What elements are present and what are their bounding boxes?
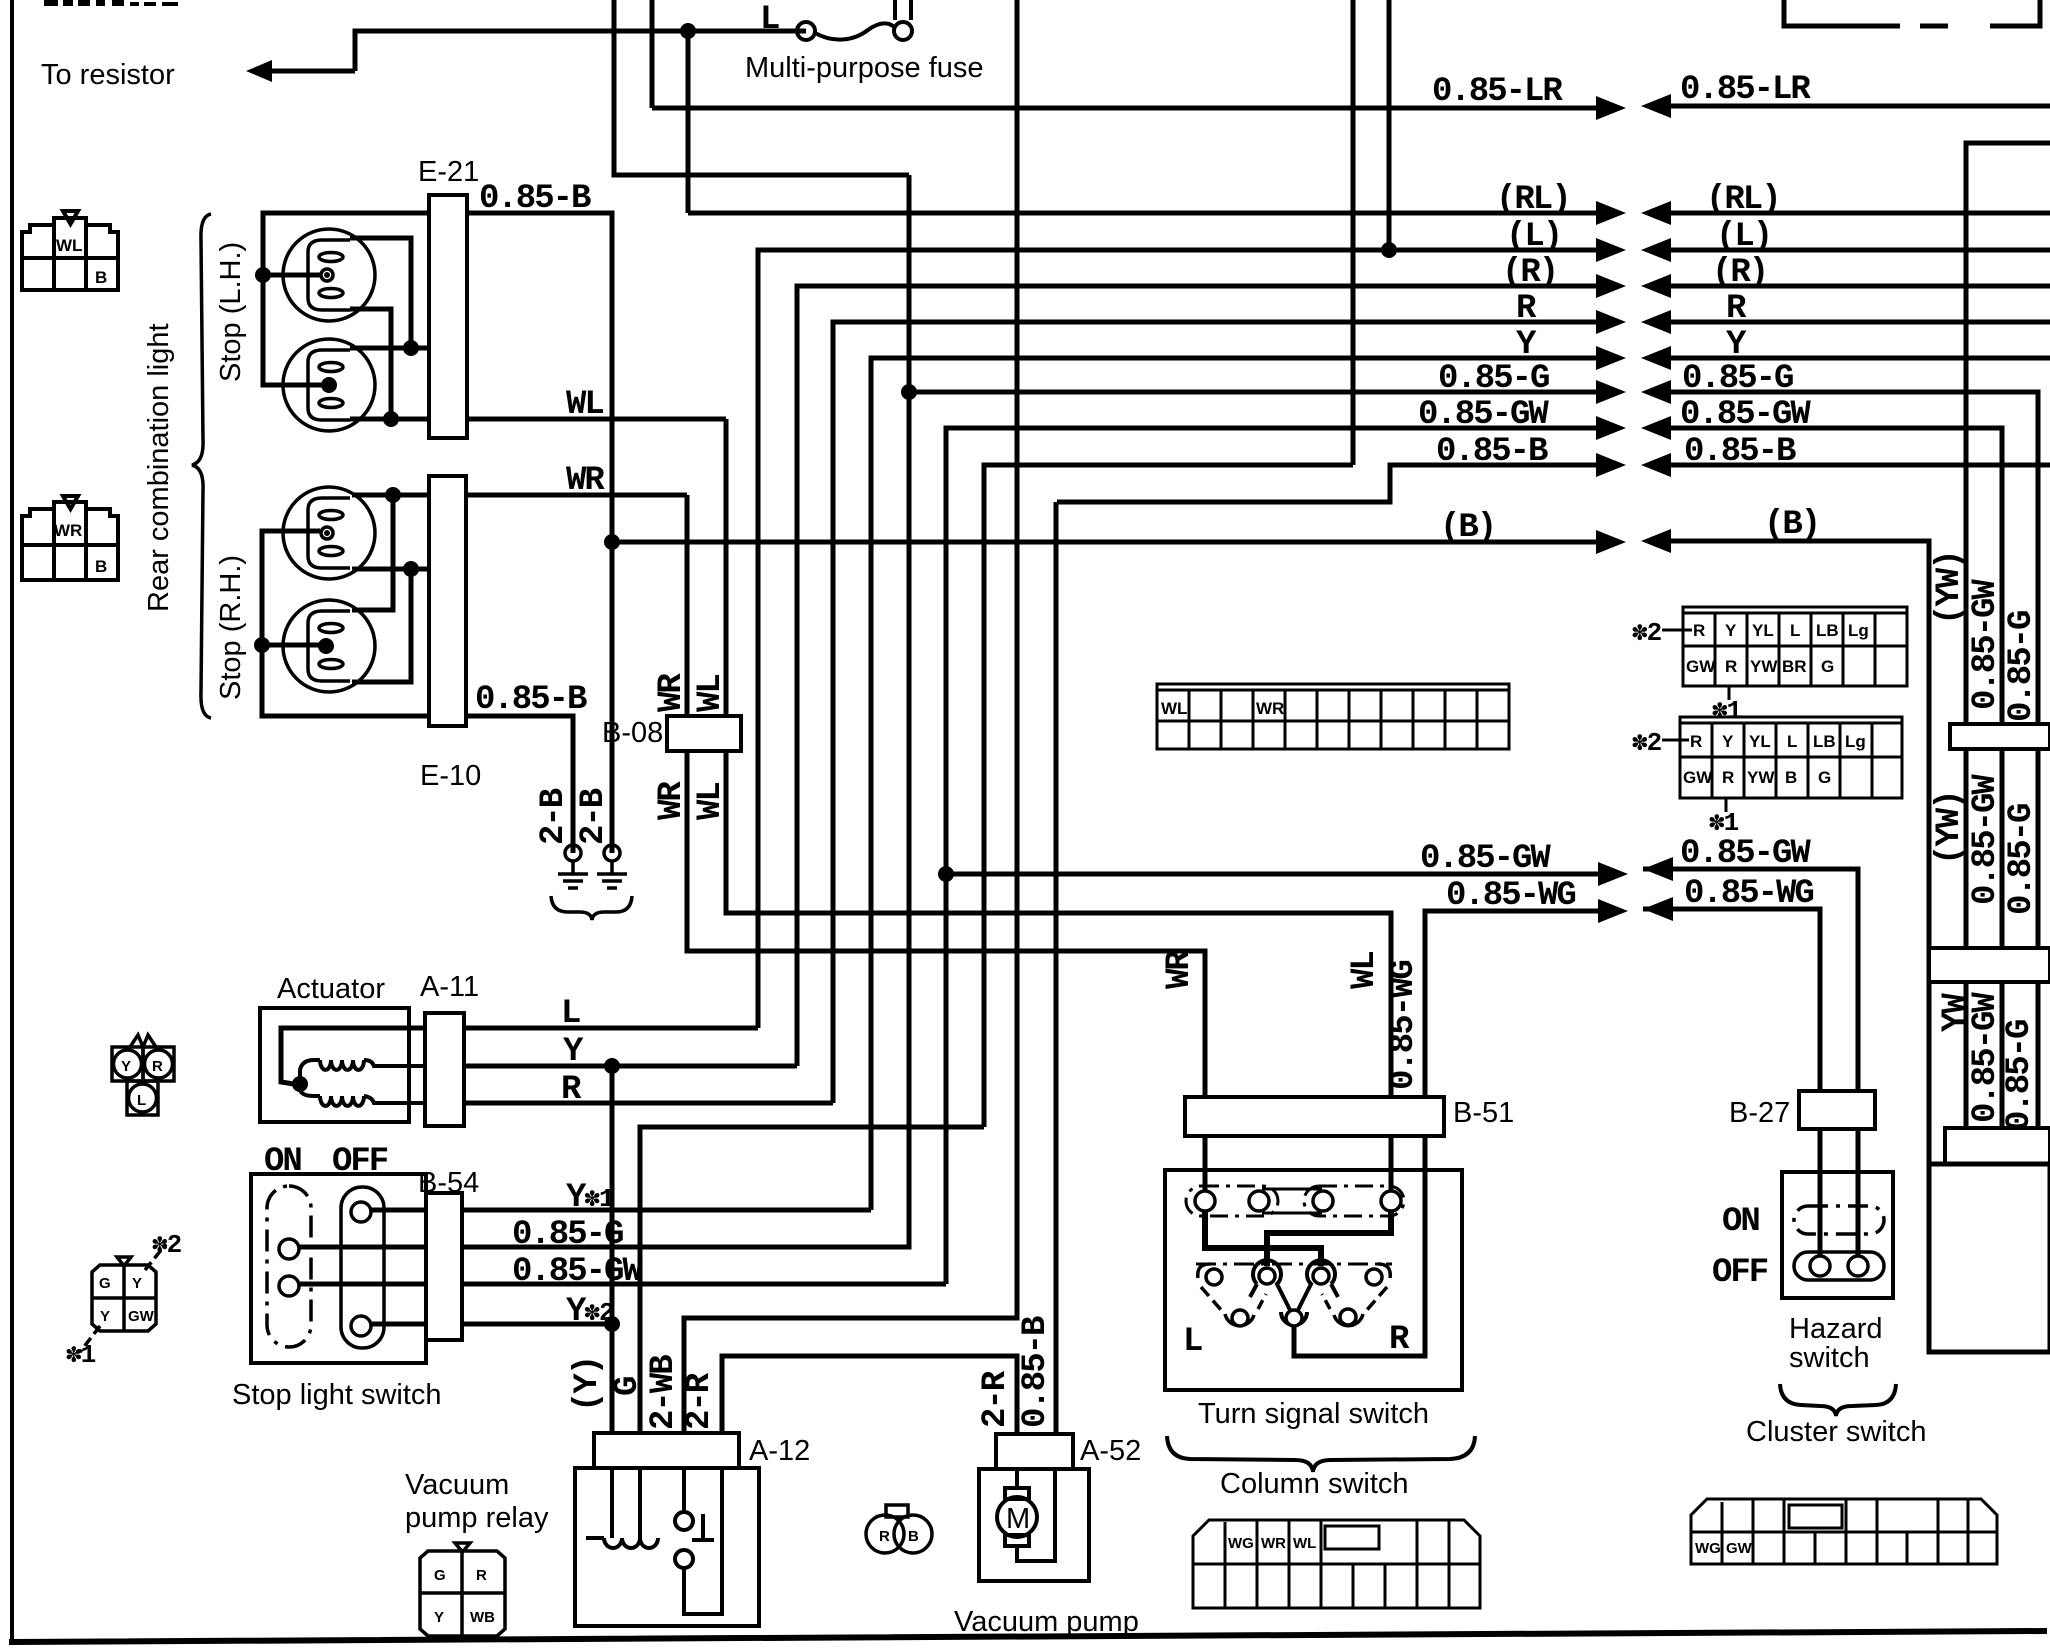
wire RH bulb tops / WR pin [352,493,687,498]
bulb RH stop 2 [283,600,375,692]
svg-text:Y: Y [121,1058,131,1075]
svg-text:0.85-G: 0.85-G [1682,360,1793,398]
junction node fuse feed [680,23,696,39]
svg-text:ON: ON [1722,1203,1759,1241]
svg-text:L: L [1790,621,1800,640]
main vertical feed wires from top [462,0,1389,1433]
svg-text:WR: WR [54,521,82,540]
wire 0.85-G right [1649,392,2038,1128]
svg-text:(L): (L) [1506,218,1561,256]
svg-text:(B): (B) [1764,506,1819,544]
svg-text:Multi-purpose fuse: Multi-purpose fuse [745,52,984,84]
svg-text:(B): (B) [1440,509,1495,547]
svg-text:A-12: A-12 [749,1435,810,1467]
wire 0.85-G left [909,390,1618,395]
node (B) junction [604,534,620,550]
svg-text:R: R [1389,1321,1410,1359]
hazard switch box [1782,1172,1893,1298]
bus labels left column [1418,73,1575,915]
svg-text:GW: GW [1686,657,1716,676]
connector icon WR/B [22,496,118,580]
lower contact row dash-dot line [1196,1263,1392,1266]
svg-text:OFF: OFF [1712,1254,1768,1292]
lower contact V center teardrops [1250,1260,1338,1325]
wire top feed x614 upper segment [614,0,909,175]
node LH WL [383,411,399,427]
connector bar right C [1945,1128,2050,1164]
svg-text:0.85-GW: 0.85-GW [1967,992,2005,1123]
wire Y left [871,358,1618,1210]
page left border [10,0,14,1641]
svg-text:R: R [152,1058,163,1075]
svg-text:Y: Y [100,1308,110,1325]
connector bar right A [1950,724,2050,749]
wire (RL) left [688,211,1618,216]
relay box [575,1468,759,1626]
svg-text:GW: GW [1726,1540,1753,1557]
connector icon WL/B [22,211,118,290]
wire R right [1649,320,2050,325]
wire 0.85-GW right [1649,428,2002,1128]
svg-text:0.85-G: 0.85-G [2003,804,2041,915]
bus labels right column [1680,71,1819,913]
svg-text:0.85-GW: 0.85-GW [1967,579,2005,710]
wire LH bulb tops to pin [350,238,429,348]
svg-text:0.85-B: 0.85-B [475,681,587,719]
svg-text:R: R [1690,732,1702,751]
svg-text:YW: YW [1750,657,1778,676]
node LH pin2 [403,340,419,356]
arrowhead to resistor [246,60,272,82]
wire 0.85-B down to A-52 [1054,502,1059,1434]
connector B-54 [426,1193,462,1340]
svg-text:R: R [1726,290,1747,328]
svg-text:0.85-GW: 0.85-GW [1420,840,1551,878]
svg-text:0.85-G: 0.85-G [2003,611,2041,722]
node LH left rail [255,267,271,283]
svg-text:Column switch: Column switch [1220,1468,1409,1500]
svg-text:B-27: B-27 [1729,1097,1790,1129]
svg-text:✽2: ✽2 [1632,728,1662,758]
svg-text:B: B [908,1528,919,1545]
wire x909 down to G bus and B-54 0.85-G [462,175,909,1247]
relay contact [675,1468,722,1614]
connector A-52 [996,1434,1073,1469]
brace column switch [1167,1436,1475,1472]
bulb RH stop 1 [283,487,375,579]
svg-text:WR: WR [1256,699,1284,718]
svg-text:R: R [561,1071,582,1109]
wire LH bulb1 center [263,273,320,278]
svg-text:(R): (R) [1502,254,1557,292]
bulb LH stop 2 [283,339,375,431]
svg-text:B-51: B-51 [1453,1097,1514,1129]
svg-text:0.85-G: 0.85-G [512,1216,623,1254]
wire (B) right [1649,541,1929,1164]
svg-text:Vacuum pump: Vacuum pump [954,1606,1139,1638]
svg-text:0.85-LR: 0.85-LR [1680,71,1811,109]
contact ON (dash-dot stadium) [267,1186,311,1347]
node RH left rail [254,637,270,653]
node 0.85-G junction [901,384,917,400]
svg-text:WL: WL [56,236,82,255]
svg-text:Stop light switch: Stop light switch [232,1379,442,1411]
svg-text:(R): (R) [1712,254,1767,292]
contact circle mid 2 [279,1276,299,1296]
wire WL out of E-21 [429,417,726,422]
svg-text:WG: WG [1228,1535,1254,1552]
connector A-11 [425,1013,464,1126]
svg-text:0.85-GW: 0.85-GW [512,1253,643,1291]
svg-text:R: R [1693,621,1705,640]
brace under grounds [551,896,632,920]
wire 0.85-GW from switch [298,1282,946,1287]
wire fuse junction down to (RL) [686,31,691,213]
lower contact circles [1206,1268,1382,1326]
svg-text:Stop (L.H.): Stop (L.H.) [215,242,247,382]
svg-text:Y: Y [1726,326,1747,364]
svg-text:GW: GW [128,1308,155,1325]
cut-off text fragment top-left [44,0,178,6]
svg-text:WB: WB [470,1609,495,1626]
svg-text:Lg: Lg [1845,732,1866,751]
svg-text:G: G [99,1275,111,1292]
svg-text:GW: GW [1683,768,1713,787]
svg-text:0.85-B: 0.85-B [1017,1316,1055,1428]
wire RH bulb bottoms to pin [352,567,429,572]
svg-text:YW: YW [1747,768,1775,787]
connector B-51 [1185,1097,1444,1136]
svg-text:L: L [1787,732,1797,751]
svg-text:R: R [879,1528,890,1545]
connector E-10 [429,476,466,726]
svg-text:WR: WR [653,673,691,712]
wires into hazard switch [1820,1129,1858,1266]
svg-text:(YW): (YW) [1931,791,1969,865]
label *1 (lower table) [1725,798,1728,812]
connector icon G/R/Y/WB [420,1543,505,1636]
svg-text:WL: WL [1346,952,1384,989]
connector E-21 [429,195,467,438]
svg-text:0.85-B: 0.85-B [1436,433,1548,471]
svg-text:WL: WL [692,675,730,712]
svg-text:WL: WL [1293,1535,1316,1552]
svg-text:✽2: ✽2 [1632,618,1662,648]
svg-text:L: L [1183,1323,1202,1361]
wire x1389 feed to (L) bus [1387,0,1392,250]
wire actuator L loop [281,1028,464,1084]
wire Y right [1649,356,2050,361]
wire 2-R A-12 to A-52 [722,1356,1017,1434]
svg-text:Y✽1: Y✽1 [566,1179,614,1217]
brace rear combination light [192,214,211,718]
svg-text:(RL): (RL) [1706,181,1780,219]
wire 0.85-WG down through B-51 [1294,911,1425,1356]
connector icon R/B [866,1505,932,1553]
node actuator common [292,1076,308,1092]
svg-text:M: M [1006,1503,1030,1535]
node RH WR [385,487,401,503]
wire 2-WB horizontal [684,1316,1017,1321]
multi-purpose fuse symbol [797,0,912,40]
svg-text:✽1: ✽1 [1709,808,1739,838]
svg-text:LB: LB [1813,732,1836,751]
svg-text:0.85-WG: 0.85-WG [1385,961,1423,1090]
contact circle OFF bottom [351,1316,371,1336]
vacuum pump box [979,1469,1089,1581]
svg-text:R: R [476,1567,487,1584]
svg-text:Y: Y [434,1609,444,1626]
wire 0.85-B bus segment [984,465,1353,1127]
svg-text:2-B: 2-B [575,788,613,845]
svg-text:YL: YL [1749,732,1771,751]
upper contact row dash-dot [1186,1186,1404,1216]
svg-text:switch: switch [1789,1342,1870,1374]
svg-text:Y: Y [132,1275,142,1292]
wire (L) left [758,250,1618,1028]
actuator box [260,1008,409,1122]
wire YW feed right [1966,143,2050,1128]
wire (L) right [1649,248,2050,253]
svg-text:YL: YL [1752,621,1774,640]
svg-text:E-10: E-10 [420,760,481,792]
svg-text:R: R [1516,290,1537,328]
bulb LH stop 1 [283,229,375,321]
wire 0.85-LR left [652,106,1618,111]
svg-text:WR: WR [566,462,605,500]
ground terminal right [597,845,627,888]
svg-text:Hazard: Hazard [1789,1313,1883,1345]
wire 0.85-GW left [946,428,1618,1284]
wire x1353 feed to 0.85-B bus [1351,0,1356,465]
svg-text:B: B [95,557,107,576]
svg-text:B-08: B-08 [602,717,663,749]
wire 0.85-B arrowed jog [1057,465,1618,502]
svg-text:(L): (L) [1716,218,1771,256]
svg-text:Y: Y [1516,326,1537,364]
svg-text:G: G [1818,768,1831,787]
wire actuator Y out [464,1064,797,1069]
svg-text:Actuator: Actuator [277,973,385,1005]
node RH pin2 [403,561,419,577]
svg-text:WL: WL [1161,699,1187,718]
stop light switch box [251,1174,426,1363]
svg-text:2-WB: 2-WB [645,1355,683,1430]
svg-text:L: L [137,1092,146,1109]
coil actuator 2 [300,1084,464,1106]
svg-text:(Y): (Y) [569,1357,607,1412]
svg-text:0.85-G: 0.85-G [2001,1020,2039,1131]
page bottom border [12,1631,2044,1642]
wire 0.85-WG right lower to hazard [1643,909,1820,1091]
lower contact triangle right (dash-dot) [1322,1264,1390,1326]
wire WR vertical through B-08 [687,495,1205,1192]
relay coil [586,1468,658,1548]
svg-text:0.85-G: 0.85-G [1438,360,1549,398]
label *1 (upper table) [1728,686,1731,700]
wire Y*1 from switch [370,1208,871,1213]
wire 0.85-B from E-21 [467,213,612,853]
wire LH common feed [263,213,467,385]
svg-text:G: G [609,1377,647,1396]
svg-text:B: B [1785,768,1797,787]
wire (R) right [1649,284,2050,289]
upper contact circles [1195,1191,1401,1211]
wire 0.85-WG lower left [1425,911,1620,1097]
svg-text:0.85-LR: 0.85-LR [1432,73,1563,111]
turn signal switch box [1165,1170,1462,1390]
brace cluster switch [1780,1384,1896,1416]
wire to resistor with arrow [266,31,806,71]
svg-text:LB: LB [1816,621,1839,640]
arrowheads center (right-pointing, left wires) [1596,96,1628,923]
coil actuator 1 [300,1060,464,1084]
contact OFF (stadium) [341,1187,384,1348]
wire (R) left [797,286,1618,1066]
wire 0.85-GW lower left [946,872,1620,877]
contact circle mid 1 [279,1239,299,1259]
wire (B) left [612,540,1618,545]
svg-text:Y: Y [563,1033,584,1071]
node (L) junction [1381,242,1397,258]
svg-text:WL: WL [566,386,603,424]
stop lamp L.H. wiring [263,213,726,419]
svg-text:WR: WR [653,781,691,820]
hazard ON contact dash-dot [1794,1206,1884,1234]
svg-text:0.85-GW: 0.85-GW [1680,396,1811,434]
connector icon Y/R/L [112,1035,174,1115]
ground terminal left [558,845,588,888]
wire (Y) down to A-12 [610,1066,615,1433]
wire actuator R out [464,1101,833,1106]
svg-text:A-52: A-52 [1080,1435,1141,1467]
wire WR jog to center contact [1205,1211,1321,1266]
connector icon G/Y/Y/GW [80,1244,166,1352]
svg-text:0.85-WG: 0.85-WG [1446,877,1575,915]
svg-text:0.85-GW: 0.85-GW [1418,396,1549,434]
wire 0.85-GW right lower to hazard [1643,869,1858,1091]
svg-text:pump relay: pump relay [405,1502,549,1534]
hazard contact circles [1810,1256,1830,1276]
horizontal arrow bus wires, left half [467,108,1620,1284]
wire (RL) right [1649,211,2050,216]
svg-text:A-11: A-11 [420,971,479,1003]
connector B-27 [1799,1091,1875,1129]
svg-text:WG: WG [1695,1540,1721,1557]
svg-text:2-R: 2-R [681,1372,719,1430]
svg-text:✽1: ✽1 [66,1340,96,1370]
horizontal arrow bus wires, right half [1643,106,2050,1164]
svg-text:Cluster switch: Cluster switch [1746,1416,1927,1448]
connector bar right B [1929,948,2050,982]
svg-text:(RL): (RL) [1496,181,1570,219]
wire WL vertical through B-08 [726,419,1391,1192]
pump motor M [997,1469,1055,1561]
svg-text:WR: WR [1161,950,1199,989]
node 0.85-GW junction [938,866,954,882]
svg-text:R: R [1722,768,1734,787]
svg-text:To resistor: To resistor [41,59,175,91]
svg-text:2-R: 2-R [977,1370,1015,1428]
svg-text:WR: WR [1261,1535,1286,1552]
svg-text:R: R [1725,657,1737,676]
svg-text:Vacuum: Vacuum [405,1469,509,1501]
svg-text:E-21: E-21 [418,156,479,188]
node Y*2 junction [604,1316,620,1332]
lower contact triangle left (dash-dot) [1198,1264,1266,1326]
svg-text:L: L [760,1,779,39]
svg-text:BR: BR [1782,657,1807,676]
contact circle OFF top [351,1202,371,1222]
svg-text:G: G [1821,657,1834,676]
svg-text:Turn signal switch: Turn signal switch [1198,1398,1429,1430]
svg-text:(YW): (YW) [1931,551,1969,625]
wire 0.85-LR right [1649,104,2050,109]
wire RH common feed to 0.85-B [262,531,573,853]
svg-text:Y: Y [1722,732,1734,751]
wire LH bulb bottoms to WL [350,309,429,419]
svg-text:✽2: ✽2 [152,1230,182,1260]
svg-text:L: L [561,995,580,1033]
svg-text:B: B [95,268,107,287]
hazard OFF contact [1794,1252,1884,1280]
wire Y*2 from switch [370,1322,612,1327]
node Y junction [604,1058,620,1074]
svg-text:Stop (R.H.): Stop (R.H.) [215,555,247,700]
svg-text:2-B: 2-B [535,788,573,845]
connector A-12 [594,1433,739,1468]
wire G from bus y1127 [640,1127,984,1433]
svg-text:Lg: Lg [1848,621,1869,640]
wire actuator L out [464,1026,758,1031]
svg-text:0.85-B: 0.85-B [1684,433,1796,471]
svg-text:G: G [434,1567,446,1584]
wire 0.85-G from switch [298,1245,909,1250]
wire x1017 long feed to 2-WB [684,0,1017,1433]
wire top feed x652 to 0.85-LR [650,0,655,108]
svg-text:WL: WL [692,783,730,820]
wire WL jog to center contact [1267,1211,1391,1266]
svg-text:0.85-GW: 0.85-GW [1680,835,1811,873]
svg-text:0.85-WG: 0.85-WG [1684,875,1813,913]
arrowheads center (left-pointing, right wires) [1641,94,1673,921]
stop lamp R.H. wiring [262,495,687,853]
connector B-08 [667,716,741,751]
wire R left [833,322,1618,1103]
right component box [1929,1164,2050,1352]
svg-text:0.85-B: 0.85-B [479,180,591,218]
dash-dot box top right [1784,0,2040,26]
svg-text:0.85-GW: 0.85-GW [1967,774,2005,905]
wire 0.85-B right [1649,463,2050,468]
svg-text:Rear combination light: Rear combination light [143,323,175,612]
svg-text:Y: Y [1725,621,1737,640]
